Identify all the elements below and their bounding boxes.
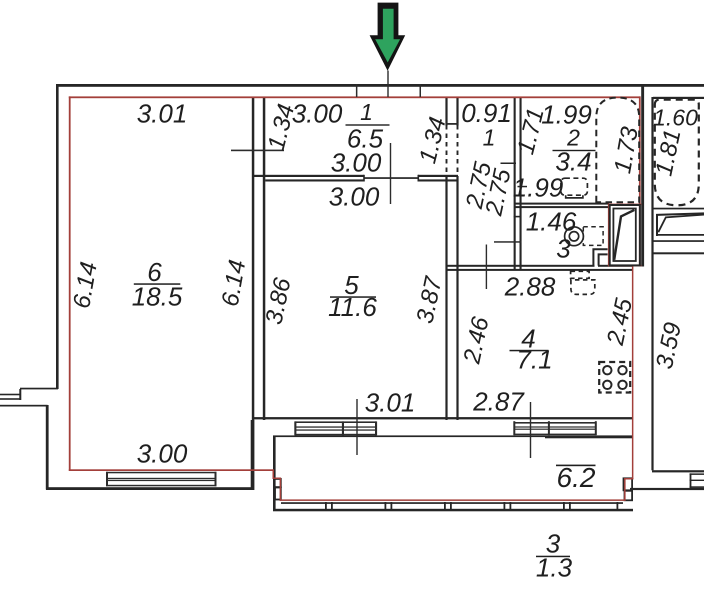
wall ledge left (0, 405, 48, 407)
tick bottom wall b (530, 402, 531, 458)
red door left (608, 204, 610, 267)
svg-text:7.1: 7.1 (516, 345, 552, 375)
right unit line B (652, 240, 704, 242)
right unit top line (653, 97, 704, 99)
wall room2-room3 (514, 203, 609, 205)
tick top wall c (420, 84, 422, 97)
bathtub right unit (655, 100, 699, 206)
svg-text:1.46: 1.46 (526, 207, 577, 237)
tick room1 top horizontal (446, 123, 459, 125)
svg-text:2.88: 2.88 (504, 272, 556, 302)
wall step left (20, 388, 58, 390)
red right main (639, 96, 641, 266)
entry door apartment (610, 205, 640, 265)
balcony post right (624, 478, 633, 490)
sink room3 (565, 227, 584, 246)
neighbour balcony line 2 (0, 398, 21, 400)
balcony door-window room5 (294, 421, 296, 435)
svg-text:3: 3 (556, 234, 571, 264)
tick room1 vertical (390, 143, 391, 204)
balcony slab top line (273, 435, 633, 437)
balcony post left (274, 479, 281, 487)
svg-text:3.00: 3.00 (331, 148, 382, 178)
right unit window edge (690, 473, 692, 488)
red balcony right jog (624, 478, 626, 501)
entry door right unit (657, 213, 704, 236)
right unit left wall (651, 97, 653, 470)
red right kitchen side (632, 266, 634, 480)
svg-text:3.01: 3.01 (137, 99, 188, 129)
right unit line D (652, 470, 704, 472)
svg-text:18.5: 18.5 (132, 282, 183, 312)
building bottom line right (630, 488, 704, 490)
svg-text:11.6: 11.6 (328, 292, 377, 322)
wall bottom rooms (254, 417, 633, 419)
wall room5-corridor left line solid parts (445, 98, 447, 126)
green entrance arrow (370, 3, 406, 71)
stove kitchen (599, 362, 630, 393)
window kitchen (513, 421, 515, 435)
svg-text:2.87: 2.87 (472, 387, 525, 417)
red bottom room6 (69, 469, 274, 471)
bathtub room2 (596, 98, 639, 203)
tick kitchen vertical (486, 245, 487, 290)
vent shaft room3 (593, 249, 607, 265)
red balcony bottom (280, 499, 626, 501)
red door top (608, 204, 642, 206)
svg-text:3.00: 3.00 (137, 439, 188, 469)
tick wall6-1 horizontal (231, 150, 284, 152)
wall bottom room 6 (46, 487, 254, 490)
svg-text:0.91: 0.91 (461, 98, 512, 128)
svg-text:1: 1 (360, 99, 373, 125)
tick bottom wall a (356, 399, 357, 455)
window room6 bottom (106, 472, 108, 486)
door threshold room1-room5 (364, 177, 418, 179)
wall room6 right lower (251, 420, 255, 490)
toilet room2 tank (561, 178, 588, 195)
neighbour balcony line 1 (0, 394, 21, 396)
wall left exterior lower (46, 405, 49, 490)
wall room3-kitchen (446, 265, 595, 267)
balcony area 6.2 (556, 465, 596, 467)
red left (69, 96, 71, 470)
railing dividers (325, 502, 327, 511)
tick top wall b (356, 84, 358, 97)
svg-text:3.01: 3.01 (365, 388, 416, 418)
balcony left wall (273, 436, 276, 511)
svg-text:3.00: 3.00 (292, 99, 343, 129)
wall rooms6-1-5 line right (263, 97, 266, 420)
balcony bottom wall (273, 509, 633, 512)
svg-text:1: 1 (483, 125, 496, 151)
tick corridor horizontal (494, 241, 522, 243)
balcony railing top line (281, 502, 623, 504)
right unit line A (652, 208, 704, 210)
toilet room2 bowl (566, 195, 583, 198)
toilet kitchen-side bowl (571, 280, 595, 295)
dashed opening room1-corridor (446, 125, 448, 176)
wall rooms6-1-5 line left (252, 97, 255, 420)
svg-text:3.00: 3.00 (329, 182, 380, 212)
wall room1-room5 upper line (254, 175, 364, 177)
svg-text:1.60: 1.60 (653, 105, 698, 131)
svg-text:1.99: 1.99 (513, 173, 564, 203)
wall room1-room5 lower line (265, 179, 364, 181)
svg-text:1.3: 1.3 (536, 553, 573, 583)
svg-text:6.2: 6.2 (557, 462, 596, 493)
red balcony left jog (273, 469, 275, 478)
neighbour balcony connector (19, 389, 21, 400)
toilet kitchen-side tank (571, 271, 590, 278)
red top (69, 96, 641, 98)
wall left exterior upper (56, 84, 59, 389)
right unit line C (653, 252, 704, 254)
wall top exterior (56, 84, 704, 87)
wall corridor-bath lines (514, 98, 516, 271)
arrow stem line (387, 71, 388, 98)
tick corridor wall (514, 216, 522, 218)
wall room5-corridor right line solid parts (456, 98, 458, 126)
wall right exterior black (641, 84, 644, 267)
red around door bottom (608, 265, 642, 267)
